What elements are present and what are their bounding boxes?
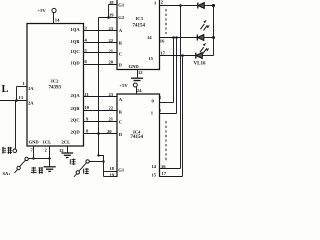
node v3 row a bbox=[179, 4, 182, 7]
IC2 output 2QD pin 8 wire to IC4 D bbox=[71, 129, 123, 137]
wire switch contact to pin7 line bbox=[28, 158, 33, 160]
svg-text:14: 14 bbox=[152, 164, 157, 169]
svg-text:14: 14 bbox=[147, 35, 152, 40]
label 快 fast bbox=[70, 159, 75, 165]
svg-text:2QC: 2QC bbox=[71, 118, 80, 123]
switch SA1 (manual) bbox=[15, 157, 29, 173]
svg-text:1QC: 1QC bbox=[71, 49, 80, 54]
node v1 row b bbox=[172, 36, 175, 39]
wire bus v4 IC4 out15 up to LED row c bbox=[182, 56, 184, 177]
LED VL16 row c with emission arrows bbox=[196, 43, 214, 59]
node 2QD to enable line junction bbox=[97, 132, 100, 135]
wire bus v2 IC4 out1 up to LED row b bbox=[176, 38, 178, 114]
svg-text:20: 20 bbox=[107, 129, 112, 134]
svg-text:C: C bbox=[119, 120, 122, 125]
svg-text:+5V: +5V bbox=[120, 83, 129, 88]
svg-text:VL16: VL16 bbox=[194, 62, 206, 67]
IC4 output 0 pin 1 wire bbox=[152, 95, 174, 103]
IC3 G2 pin 19 wire bbox=[99, 12, 125, 20]
dashed omitted outputs IC3 bbox=[165, 9, 167, 34]
wire +5V to IC2 pin 14 bbox=[54, 13, 61, 24]
svg-text:G1: G1 bbox=[118, 167, 125, 172]
node G2 junction bbox=[107, 16, 110, 19]
wire common rail right edge bbox=[213, 6, 215, 56]
svg-text:22: 22 bbox=[109, 105, 114, 110]
IC2 pin 12 2CL wire to ground bbox=[59, 146, 68, 153]
node junction pin13/clock bbox=[15, 99, 18, 102]
wire bracket G1 to G2 bbox=[108, 5, 110, 18]
node rail row b bbox=[212, 36, 215, 39]
IC3 output 14 pin 16 wire to LED row b bbox=[147, 35, 197, 44]
ground symbol under pin 2 bbox=[44, 167, 56, 172]
wire bus v1 IC4 out0 up to LED row b bbox=[173, 38, 175, 103]
svg-text:18: 18 bbox=[109, 0, 114, 5]
IC3 output 15 pin 17 wire to LED row c bbox=[149, 51, 196, 61]
+5V terminal for IC4 bbox=[120, 83, 138, 88]
IC4 output 15 pin 17 wire bbox=[152, 171, 183, 177]
IC2 pin 7 GND wire bbox=[31, 146, 35, 160]
IC4 decoder 74154 box bbox=[117, 94, 160, 177]
IC3 GND pin 12 wire bbox=[138, 70, 144, 78]
svg-text:16: 16 bbox=[160, 39, 165, 44]
svg-text:2CL: 2CL bbox=[62, 140, 71, 145]
svg-text:17: 17 bbox=[162, 171, 167, 176]
svg-text:G1: G1 bbox=[118, 2, 125, 7]
IC2 output 2QC pin 9 wire to IC4 C bbox=[71, 116, 123, 124]
svg-text:C: C bbox=[119, 51, 122, 56]
wire +5V to IC4 pin 24 bbox=[137, 87, 143, 94]
IC4 G2 pin 19 wire bbox=[104, 173, 118, 178]
IC4 G1 pin 18 wire bbox=[104, 166, 125, 172]
ground symbol under pin 12 bbox=[61, 153, 73, 158]
svg-text:1CL: 1CL bbox=[43, 140, 52, 145]
svg-text:IC2: IC2 bbox=[51, 79, 59, 84]
svg-text:74154: 74154 bbox=[133, 24, 146, 29]
IC2 pin 2 1CL wire to ground bbox=[45, 146, 51, 167]
LED VL1 row a bbox=[198, 3, 214, 9]
IC2 output 2QA pin 11 wire to IC4 A bbox=[71, 92, 123, 102]
svg-text:B: B bbox=[119, 109, 122, 114]
svg-text:GND: GND bbox=[29, 140, 40, 145]
IC3 decoder 74154 box bbox=[117, 0, 160, 70]
IC2 pin 13 input 2A wire from left edge bbox=[0, 95, 34, 105]
node v4 row c bbox=[181, 54, 184, 57]
svg-text:13: 13 bbox=[19, 95, 24, 100]
+5V terminal for IC2 bbox=[38, 8, 57, 13]
svg-text:74393: 74393 bbox=[49, 86, 62, 91]
label 慢 slow bbox=[84, 168, 89, 174]
svg-text:19: 19 bbox=[109, 12, 114, 17]
wire clock line down to flash terminal bbox=[15, 101, 17, 150]
svg-text:2QA: 2QA bbox=[71, 93, 81, 98]
svg-text:22: 22 bbox=[109, 38, 114, 43]
label 手动 manual bbox=[31, 167, 43, 174]
IC2 output 1QC pin 5 wire to IC3 C bbox=[71, 48, 123, 56]
wire enable bus vertical from IC3 G2 down to IC4 G1/G2 bbox=[98, 18, 100, 156]
ground symbol IC3 pin 12 bbox=[131, 78, 143, 80]
svg-text:21: 21 bbox=[109, 48, 114, 53]
svg-text:1QB: 1QB bbox=[71, 39, 80, 44]
wire ground link bbox=[34, 158, 50, 160]
svg-text:12: 12 bbox=[138, 70, 143, 75]
svg-text:+5V: +5V bbox=[38, 8, 47, 13]
IC2 output 1QA pin 3 wire to IC3 A bbox=[71, 26, 123, 34]
wire enable feed jog to IC4 G1 bbox=[99, 156, 104, 172]
switch SA2 speed select 快/慢 bbox=[74, 160, 105, 177]
svg-text:15: 15 bbox=[152, 172, 157, 177]
svg-text:12: 12 bbox=[59, 148, 64, 153]
svg-text:10: 10 bbox=[85, 105, 90, 110]
svg-text:18: 18 bbox=[110, 166, 115, 171]
dashed omitted outputs IC4 bbox=[165, 121, 167, 162]
IC2 output 1QB pin 4 wire to IC3 B bbox=[71, 38, 122, 46]
wire bracket IC4 G1 G2 bbox=[103, 172, 105, 177]
svg-text:1QD: 1QD bbox=[71, 60, 81, 65]
svg-text:19: 19 bbox=[110, 173, 115, 177]
svg-text:14: 14 bbox=[55, 18, 60, 23]
LED VL15 row b with emission arrows bbox=[197, 20, 213, 41]
wire bus v3 IC4 out14 up to LED row a bbox=[180, 6, 182, 169]
svg-text:23: 23 bbox=[109, 26, 114, 31]
svg-text:21: 21 bbox=[109, 117, 114, 122]
IC3 output 0 pin 1 wire to LED row a bbox=[154, 0, 198, 6]
svg-text:1QA: 1QA bbox=[71, 27, 81, 32]
svg-text:GND: GND bbox=[129, 64, 140, 69]
svg-text:L: L bbox=[2, 84, 9, 95]
svg-text:74154: 74154 bbox=[131, 135, 144, 140]
svg-text:SA1: SA1 bbox=[3, 171, 11, 176]
svg-text:17: 17 bbox=[161, 51, 166, 56]
svg-text:2QD: 2QD bbox=[71, 130, 81, 135]
svg-text:23: 23 bbox=[109, 92, 114, 97]
wire bracket joining pin1 and pin13 bbox=[16, 87, 18, 101]
svg-text:20: 20 bbox=[109, 60, 114, 65]
svg-text:15: 15 bbox=[149, 56, 154, 61]
svg-text:IC3: IC3 bbox=[136, 16, 144, 21]
svg-text:1A: 1A bbox=[28, 86, 34, 91]
svg-text:24: 24 bbox=[137, 88, 142, 93]
IC4 output 1 pin 2 wire bbox=[151, 108, 177, 115]
node v2 row b bbox=[175, 36, 178, 39]
IC4 output 14 pin 16 wire bbox=[152, 164, 181, 169]
svg-text:2A: 2A bbox=[28, 100, 34, 105]
IC2 output 2QB pin 10 wire to IC4 B bbox=[71, 105, 122, 114]
IC3 G1 pin 18 wire bbox=[109, 0, 125, 7]
svg-text:IC4: IC4 bbox=[133, 129, 141, 134]
IC2 output 1QD pin 6 wire to IC3 D bbox=[71, 59, 123, 67]
node enable corner bbox=[97, 154, 99, 156]
IC2 bottom inside labels GND 1CL 2CL bbox=[29, 140, 71, 145]
IC2 counter 74393 box bbox=[27, 24, 84, 147]
node rail top bbox=[212, 4, 215, 7]
svg-text:B: B bbox=[119, 41, 122, 46]
IC2 pin 1 input 1A wire bbox=[17, 81, 35, 91]
闪烁 flash input terminal bbox=[2, 147, 17, 154]
svg-text:2QB: 2QB bbox=[71, 106, 80, 111]
svg-text:G2: G2 bbox=[118, 15, 125, 20]
